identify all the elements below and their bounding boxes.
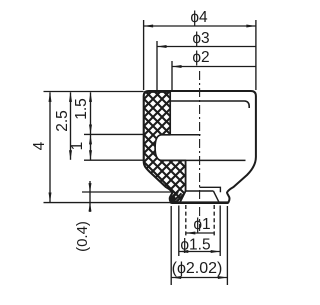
hatched section region (left half) bbox=[144, 92, 186, 203]
dim phi1 line bbox=[186, 232, 214, 234]
dim phi2 line bbox=[172, 66, 256, 68]
ext line bottom bbox=[44, 202, 172, 204]
svg-text:ϕ2: ϕ2 bbox=[192, 49, 209, 66]
slot bottom edge / skirt crease line bbox=[162, 159, 246, 161]
svg-text:(0.4): (0.4) bbox=[74, 221, 91, 252]
hole left edge (section) bbox=[185, 160, 187, 191]
phi1.5 ext lines bbox=[178, 206, 180, 257]
neck crease line right bbox=[200, 187, 221, 192]
svg-text:2.5: 2.5 bbox=[54, 110, 71, 132]
svg-text:ϕ1: ϕ1 bbox=[193, 216, 210, 233]
dim phi4 line bbox=[144, 25, 256, 27]
foot tip bbox=[170, 196, 176, 203]
mouth crease line bbox=[186, 190, 214, 192]
svg-text:ϕ1.5: ϕ1.5 bbox=[180, 237, 210, 254]
recess floor line bbox=[170, 101, 249, 108]
dim phi1.5 line bbox=[179, 251, 220, 253]
svg-text:1.5: 1.5 bbox=[73, 98, 90, 120]
phi4 ext line right bbox=[255, 20, 257, 90]
dim phi3 line bbox=[157, 46, 256, 48]
ext line 1.5 level bbox=[84, 133, 144, 135]
svg-text:ϕ4: ϕ4 bbox=[190, 9, 208, 26]
mouth cone left edge bbox=[180, 191, 186, 202]
dim 4 line bbox=[49, 92, 51, 202]
centerline bbox=[199, 71, 201, 231]
svg-text:4: 4 bbox=[31, 141, 48, 150]
mouth cone right edge bbox=[213, 191, 219, 202]
ext line lip top (0.4) bbox=[82, 191, 172, 193]
svg-text:(ϕ2.02): (ϕ2.02) bbox=[172, 260, 223, 277]
lip bottom face line bbox=[171, 201, 228, 204]
phi2.02 ext lines bbox=[170, 206, 172, 285]
svg-text:ϕ3: ϕ3 bbox=[192, 30, 209, 47]
svg-text:1: 1 bbox=[69, 142, 86, 151]
phi2 ext line bbox=[171, 61, 173, 90]
dim 0.4 arrows bbox=[89, 181, 91, 202]
phi4 ext line left bbox=[143, 20, 145, 90]
dim 1.5 line bbox=[90, 92, 92, 134]
slot (groove) top edge bbox=[162, 134, 201, 136]
foot section dark hatching bbox=[171, 192, 183, 202]
phi1 ext lines bbox=[185, 205, 187, 237]
pad body outer profile (section outline) bbox=[144, 91, 256, 203]
dim 2.5 line bbox=[70, 92, 72, 160]
ext line 2.5 level bbox=[84, 159, 144, 161]
dim phi2.02 line bbox=[172, 277, 228, 279]
top-left ext line bbox=[44, 91, 144, 93]
phi3 ext line bbox=[156, 41, 158, 90]
dim 1 line bbox=[90, 135, 92, 160]
